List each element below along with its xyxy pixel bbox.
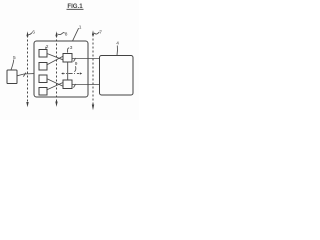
label 3 leader [68, 48, 70, 53]
wire source box to main box [17, 74, 34, 76]
wire E4 to bottom combiner [47, 83, 63, 90]
label 7 leader [94, 32, 99, 34]
svg-text:5: 5 [13, 55, 16, 61]
output box right [100, 56, 134, 96]
wire top combiner to output box [73, 58, 100, 60]
emitter square E3 [39, 75, 47, 83]
label 5 leader [11, 60, 14, 70]
svg-text:4: 4 [116, 41, 119, 47]
svg-text:6: 6 [32, 30, 35, 36]
emitter square E1 [39, 50, 47, 58]
arrow down on right axis [92, 105, 94, 111]
rotation axis arrow left [61, 72, 63, 74]
arrow down on middle axis [55, 102, 57, 107]
rotation axis (dash-dot horizontal) [63, 73, 79, 75]
wire E3 to bottom combiner [47, 79, 63, 86]
svg-text:9: 9 [75, 61, 78, 67]
wire bottom combiner to output box [73, 84, 100, 86]
label 6 leader [28, 33, 32, 35]
combiner square bottom [63, 80, 72, 89]
label 8 leader [57, 33, 64, 35]
svg-text:8: 8 [65, 31, 68, 37]
wire E1 to top combiner [47, 54, 63, 60]
source box left [7, 70, 17, 84]
bus slash on top output wire [74, 58, 76, 62]
arrow up on right axis [92, 30, 94, 35]
combiner square top [63, 54, 72, 63]
title FIG.1 [67, 3, 84, 10]
scan axis line left (dashed vertical) [27, 36, 29, 103]
main unit box [34, 41, 88, 97]
label 4 leader [116, 46, 118, 56]
rotation axis arrow right [80, 72, 82, 74]
label 9 leader [74, 66, 75, 72]
bus slash on source wire [23, 73, 25, 77]
svg-text:3: 3 [70, 45, 73, 51]
emitter square E2 [39, 63, 47, 71]
svg-text:7: 7 [99, 29, 102, 35]
emitter square E4 [39, 88, 47, 96]
svg-text:2: 2 [46, 44, 49, 50]
bus slash on bottom output wire [74, 84, 76, 88]
scan axis line middle (dashed vertical) [56, 36, 58, 102]
leader for label 1 [73, 28, 79, 41]
svg-text:1: 1 [79, 24, 82, 30]
wire E2 to top combiner [47, 56, 63, 65]
label 2 leader [45, 47, 47, 49]
arrow up on middle axis [55, 31, 57, 36]
arrow down on left axis [26, 102, 28, 107]
scan axis line right (dashed vertical) [92, 35, 94, 105]
arrow up on left axis [26, 31, 28, 36]
link wire between combiners [67, 62, 69, 80]
